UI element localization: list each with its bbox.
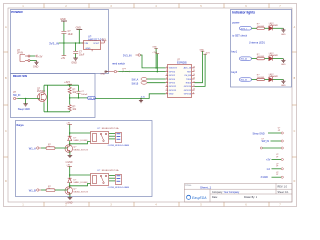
svg-text:7: 7	[166, 89, 167, 91]
wire conn pin1 to +3V	[30, 55, 35, 57]
svg-text:+3V: +3V	[61, 57, 66, 60]
wire LED to gnd row3	[273, 79, 284, 81]
resistor R2 10k (pull-down)	[69, 98, 71, 105]
power flag +3V (down)	[62, 55, 67, 57]
svg-text:GPIO15: GPIO15	[184, 90, 192, 92]
svg-text:TITLE:: TITLE:	[185, 185, 192, 187]
wire coil top to relay row2	[70, 174, 91, 176]
port SW_A (output)	[88, 96, 96, 99]
wire flag to junction row2	[69, 166, 71, 177]
svg-text:GND: GND	[100, 73, 105, 75]
wire down to right pin6	[195, 54, 206, 86]
svg-text:6: 6	[166, 85, 167, 87]
Keys section box	[16, 121, 153, 205]
chip pins right	[192, 68, 195, 94]
svg-text:S8050_SOT23: S8050_SOT23	[73, 191, 88, 193]
svg-text:12: 12	[193, 81, 195, 83]
svg-text:CH_EN: CH_EN	[184, 75, 191, 77]
junction dots on rail	[63, 42, 65, 44]
wire resistor to base	[55, 147, 67, 149]
svg-text:10uF: 10uF	[68, 34, 74, 36]
wire resistor to LED	[265, 27, 269, 29]
wire top rail	[44, 84, 79, 86]
svg-text:16: 16	[193, 67, 195, 69]
wire bottom rail	[44, 111, 70, 113]
svg-text:10: 10	[193, 89, 195, 91]
svg-text:4: 4	[166, 78, 167, 80]
node coil top (row 1)	[69, 132, 71, 134]
wire 3V3_IN to pin1	[140, 55, 165, 68]
ground (row 2)	[68, 197, 73, 199]
wire flag to junction	[69, 124, 71, 135]
wire LED to gnd row2	[273, 58, 284, 60]
node collector (row 2)	[69, 185, 71, 187]
Indicator lights section box	[231, 10, 292, 88]
svg-text:15: 15	[193, 70, 195, 72]
svg-text:ADC_IN: ADC_IN	[184, 67, 192, 70]
svg-text:14: 14	[193, 74, 195, 76]
svg-text:+3V: +3V	[38, 55, 43, 58]
ground (LED row 2)	[281, 59, 285, 63]
svg-text:100nF: 100nF	[81, 94, 88, 96]
READ SW section box	[11, 74, 96, 118]
EasyEDA logo	[187, 195, 208, 200]
wire left vertical	[47, 85, 49, 112]
svg-text:key2: key2	[231, 70, 237, 74]
svg-text:3V3_IN: 3V3_IN	[49, 42, 59, 46]
svg-text:2P-IN: 2P-IN	[17, 53, 23, 55]
svg-text:W1_B: W1_B	[29, 188, 36, 192]
ground (reed)	[105, 70, 108, 73]
diode D2 flyback	[68, 178, 72, 182]
connector J1 3-pin	[116, 133, 122, 143]
right side connector pins column	[253, 128, 284, 180]
wire down to sleep gnd	[25, 99, 27, 104]
svg-text:GND: GND	[169, 94, 174, 96]
svg-text:Company: Your Company: Company: Your Company	[212, 191, 240, 194]
connector U1 (input 2-pin)	[20, 55, 30, 62]
svg-text:GND: GND	[281, 85, 286, 87]
MCU area	[96, 47, 211, 103]
wire rail to C3	[75, 43, 77, 51]
wire gnd to C2	[63, 22, 65, 31]
svg-text:5: 5	[166, 81, 167, 83]
wire resistor to LED row3	[265, 79, 269, 81]
wire down to pin1 wire	[155, 48, 157, 68]
svg-text:+3V: +3V	[266, 159, 271, 162]
wire diode to collector node row2	[69, 183, 71, 188]
svg-text:GPIO16: GPIO16	[184, 94, 192, 96]
wire emitter to gnd row2	[69, 193, 71, 197]
svg-text:CON3_KF301-5.0MM: CON3_KF301-5.0MM	[108, 145, 129, 147]
svg-text:READ SW: READ SW	[13, 74, 27, 78]
wire C3 to ground	[75, 54, 77, 59]
svg-text:3 GND: 3 GND	[261, 176, 269, 179]
svg-text:GND: GND	[71, 62, 77, 65]
svg-text:GND: GND	[76, 26, 82, 29]
svg-text:Sheet: 1/1: Sheet: 1/1	[278, 191, 290, 194]
wire SW_B to pin5	[147, 82, 166, 84]
svg-text:13: 13	[193, 78, 195, 80]
wire output	[70, 97, 88, 99]
pin reed switch	[108, 70, 118, 72]
ground below C3	[73, 58, 78, 60]
wire coil top to relay	[70, 132, 91, 134]
svg-text:Drawn By: 1: Drawn By: 1	[244, 196, 258, 199]
svg-text:VDD3V3: VDD3V3	[169, 68, 178, 70]
wire to resistor	[252, 27, 257, 29]
wire LED to gnd	[273, 27, 284, 29]
wire SW_A to pin4	[147, 78, 166, 80]
svg-text:GPIO2: GPIO2	[169, 75, 176, 77]
wire C2 to rail	[63, 34, 65, 44]
svg-text:W1_B: W1_B	[241, 80, 247, 82]
ground flag Sleep GND	[23, 104, 28, 106]
svg-text:GND: GND	[281, 34, 286, 36]
capacitor C2 10uF	[61, 31, 66, 33]
svg-text:RXD0: RXD0	[186, 83, 192, 85]
svg-text:VIN: VIN	[84, 43, 88, 45]
node coil top (row 2)	[69, 174, 71, 176]
wire to resistor row2	[252, 58, 257, 60]
svg-text:+3V3: +3V3	[64, 82, 70, 84]
pin pair P3	[260, 147, 262, 149]
svg-text:key1: key1	[231, 49, 237, 53]
POWER section box	[11, 10, 109, 74]
wire pin to resistor	[41, 147, 46, 149]
svg-text:GPIO12: GPIO12	[169, 86, 177, 88]
svg-text:to SET check: to SET check	[232, 35, 248, 38]
ground (row 1)	[68, 155, 73, 157]
svg-text:3: 3	[166, 74, 167, 76]
svg-text:11: 11	[193, 85, 195, 87]
pin names left	[169, 68, 178, 96]
wire main input rail	[59, 42, 84, 44]
svg-text:SMBJ_DO463: SMBJ_DO463	[73, 182, 88, 184]
node gnd tap	[140, 98, 142, 100]
svg-text:POWER: POWER	[11, 10, 23, 14]
chip pins left	[166, 68, 169, 94]
ground (LED row 1)	[281, 28, 285, 32]
svg-text:Keys: Keys	[17, 123, 25, 127]
wire pin to resistor row2	[41, 189, 46, 191]
connector J2 3-pin	[116, 175, 122, 185]
svg-text:W1_A: W1_A	[29, 146, 36, 150]
svg-text:SMBJ_DO463: SMBJ_DO463	[73, 140, 88, 142]
power flag +3V	[35, 55, 37, 58]
svg-text:10uF: 10uF	[79, 54, 85, 56]
pin numbers right	[193, 67, 195, 95]
svg-text:EasyEDA: EasyEDA	[192, 196, 207, 200]
wire diode to collector node	[69, 141, 71, 146]
wire drain up / source down	[43, 85, 45, 91]
svg-text:S8050_SOT23: S8050_SOT23	[73, 149, 88, 151]
ground (input)	[34, 61, 38, 65]
transistor Q1 S8050	[65, 145, 73, 153]
svg-text:R/0603MR: R/0603MR	[269, 55, 279, 57]
svg-text:REV: 1.0: REV: 1.0	[278, 186, 288, 189]
svg-text:GND: GND	[86, 48, 91, 50]
svg-text:[ Interna LED ]: [ Interna LED ]	[249, 42, 265, 45]
wire resistor to LED row2	[265, 58, 269, 60]
wire to resistor row3	[252, 79, 257, 81]
transistor Q2 S8050	[65, 187, 73, 195]
svg-text:SW_A: SW_A	[88, 97, 95, 100]
svg-text:SW_A: SW_A	[132, 79, 139, 82]
svg-text:+3V3: +3V3	[101, 39, 107, 41]
title block	[184, 183, 292, 202]
wire emitter to gnd	[69, 151, 71, 155]
svg-text:reed switch: reed switch	[112, 61, 126, 65]
svg-text:1 GND: 1 GND	[65, 203, 72, 205]
wire resistor to base row2	[55, 189, 67, 191]
wire conn pin2 to GND	[30, 60, 37, 62]
pin numbers left	[166, 67, 167, 95]
resistor R1 10k (pull-up)	[69, 85, 71, 87]
ground (LED row 3)	[281, 80, 285, 84]
svg-text:GND: GND	[281, 64, 286, 66]
svg-text:ESP8285: ESP8285	[177, 62, 187, 64]
node collector (row 1)	[69, 143, 71, 145]
svg-text:R/0603MR: R/0603MR	[269, 76, 279, 78]
svg-text:TXD0: TXD0	[186, 79, 192, 81]
svg-text:Sleep GND: Sleep GND	[18, 108, 30, 111]
svg-text:1: 1	[166, 67, 167, 69]
svg-text:3V3_IN: 3V3_IN	[123, 53, 132, 57]
svg-text:GPIO5: GPIO5	[169, 83, 176, 85]
wire relay contacts to connector row2	[109, 175, 115, 177]
svg-text:3V3_I: 3V3_I	[241, 28, 247, 30]
wire gate input	[18, 98, 40, 100]
svg-text:GPIO13: GPIO13	[169, 90, 177, 92]
capacitor C3 10uF	[73, 51, 78, 53]
svg-text:Sheet_1: Sheet_1	[200, 186, 212, 190]
wire rail down to +3V flag	[63, 43, 65, 56]
svg-text:Date:: Date:	[212, 196, 218, 199]
svg-text:RELAY-SPDT-5A: RELAY-SPDT-5A	[102, 127, 119, 130]
svg-text:GPIO0: GPIO0	[169, 71, 176, 73]
svg-text:R/0603MR: R/0603MR	[269, 25, 279, 27]
svg-text:GPIO14: GPIO14	[184, 86, 192, 88]
wire gnd2 down to rail	[78, 30, 80, 44]
pin names right	[184, 67, 192, 96]
svg-text:GND: GND	[60, 18, 66, 21]
svg-text:Sleep GND: Sleep GND	[253, 133, 265, 136]
wire READ SW output to pin8	[96, 94, 166, 99]
wire relay contacts to connector	[109, 133, 115, 135]
svg-text:9: 9	[193, 92, 194, 94]
svg-text:SW_IN: SW_IN	[13, 95, 21, 97]
port 3V3_I (LED row 1)	[240, 27, 252, 30]
svg-text:RELAY-SPDT-5A: RELAY-SPDT-5A	[102, 169, 119, 172]
svg-text:W1_A: W1_A	[241, 58, 247, 61]
wire reed to pin2	[118, 71, 165, 73]
wire down to pin2 wire	[156, 54, 158, 72]
svg-text:GND: GND	[33, 65, 39, 68]
svg-text:CON3_KF301-5.0MM: CON3_KF301-5.0MM	[108, 187, 129, 189]
power flag +3V3 at regulator output	[102, 41, 106, 43]
junction	[69, 84, 71, 86]
diode D1 flyback	[68, 136, 72, 140]
svg-text:1 GND: 1 GND	[65, 162, 72, 164]
svg-text:SW_B: SW_B	[132, 82, 139, 85]
wire down to right pin5	[195, 51, 203, 82]
svg-text:SW_IN: SW_IN	[262, 140, 270, 143]
port W1_A (LED row 2)	[240, 57, 252, 60]
svg-text:VOUT: VOUT	[93, 43, 100, 45]
wire collector node to relay coil bottom row2	[70, 184, 91, 186]
wire collector node to relay coil bottom	[70, 142, 91, 144]
svg-text:GPIO4: GPIO4	[169, 79, 176, 81]
capacitor C 100nF	[78, 85, 80, 91]
svg-text:2: 2	[166, 70, 167, 72]
svg-text:power: power	[232, 21, 239, 25]
svg-text:8: 8	[166, 92, 167, 94]
port W1_B (LED row 3)	[240, 78, 252, 81]
svg-text:Indicator lights: Indicator lights	[232, 10, 255, 14]
